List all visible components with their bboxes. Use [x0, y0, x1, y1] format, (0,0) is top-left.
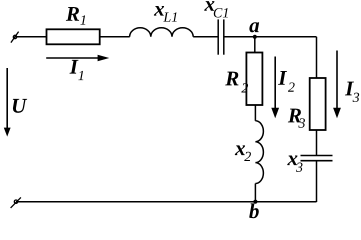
label I2 main — [278, 71, 287, 85]
terminal top-left — [11, 32, 19, 43]
resistor R1 — [47, 29, 100, 44]
capacitor xC1 — [218, 19, 224, 54]
label R3 main — [288, 109, 301, 123]
label xL1 main — [154, 6, 164, 16]
label I1 sub — [78, 71, 83, 80]
wire x3 to bottom wire — [316, 161, 318, 202]
current arrow I1 — [46, 55, 109, 62]
node a — [253, 35, 257, 39]
label x3 sub — [296, 163, 303, 172]
label node b — [249, 203, 259, 218]
label xC1 main — [204, 1, 214, 11]
label node a — [249, 22, 259, 32]
label R2 sub — [241, 83, 248, 92]
voltage arrow U — [4, 68, 11, 137]
label xC1 sub — [214, 8, 228, 17]
node b — [253, 200, 257, 204]
inductor x2 — [255, 121, 263, 184]
label x2 sub — [244, 152, 251, 161]
wire terminal to R1 — [15, 36, 47, 38]
label x2 main — [235, 145, 245, 155]
label x3 main — [287, 156, 297, 166]
wire a to R2 — [254, 37, 256, 53]
label R1 sub — [80, 15, 85, 24]
label U — [13, 99, 27, 113]
current arrow I3 — [333, 51, 341, 119]
label R2 main — [225, 72, 238, 86]
capacitor x3 — [301, 156, 333, 161]
inductor xL1 — [130, 28, 194, 37]
wire C1 to top-right corner — [224, 36, 316, 38]
wire R1 to L1 — [100, 36, 130, 38]
wire R2 to x2 — [254, 105, 256, 121]
label R1 main — [66, 7, 79, 21]
resistor R2 — [246, 53, 262, 106]
label xL1 sub — [163, 12, 176, 21]
wire L1 to C1 — [193, 36, 218, 38]
current arrow I2 — [271, 57, 279, 119]
label I3 sub — [353, 93, 360, 102]
bottom wire — [16, 201, 317, 203]
label I1 main — [70, 60, 79, 74]
label I2 sub — [288, 82, 295, 91]
wire R3 to x3 — [316, 130, 318, 155]
resistor R3 — [310, 78, 326, 130]
wire x2 to node b — [254, 184, 256, 202]
terminal bottom-left — [11, 197, 21, 208]
label R3 sub — [298, 118, 305, 127]
wire a to R3 (top right vertical) — [316, 37, 318, 78]
label I3 main — [345, 82, 354, 96]
